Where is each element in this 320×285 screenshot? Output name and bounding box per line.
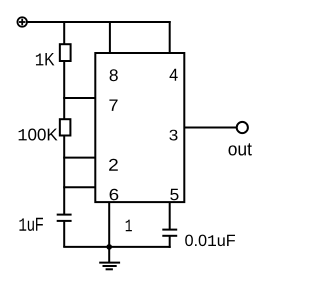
wire pin 2: [63, 157, 96, 159]
value label 100K: [19, 129, 58, 141]
pin 8 label: [110, 69, 118, 81]
pin 1 label: [126, 220, 132, 232]
junction dot: [106, 244, 112, 250]
terminal out: [237, 122, 248, 133]
net label out: [229, 143, 252, 155]
value label 1uF: [19, 218, 43, 231]
pin 3 label: [169, 130, 177, 141]
value label 1K: [36, 53, 55, 65]
wire pin 4 drop: [169, 21, 171, 54]
wire R1 top lead: [63, 21, 65, 45]
wire pin 5 lead: [169, 202, 171, 230]
wire ground rail: [63, 246, 171, 248]
wire V+ rail: [27, 21, 171, 23]
wire pin 6: [63, 186, 96, 188]
pin 2 label: [109, 159, 118, 171]
wire R2 to C1: [63, 136, 65, 215]
wire ground lead: [108, 247, 110, 263]
pin 7 label: [109, 100, 117, 111]
IC U1 555: [95, 53, 184, 202]
pin 5 label: [170, 189, 178, 201]
wire pin 3: [184, 127, 237, 129]
wire R1 to R2: [63, 61, 65, 120]
capacitor C2 0.01uF: [162, 230, 177, 236]
ground GND: [99, 263, 120, 270]
pin 4 label: [170, 69, 178, 81]
terminal V+: [17, 17, 27, 27]
pin 6 label: [110, 189, 119, 201]
wire C1 bottom lead: [63, 221, 65, 247]
value label 0.01uF: [185, 235, 235, 247]
resistor R2 100K: [60, 119, 71, 135]
wire pin 8 drop: [109, 21, 111, 54]
capacitor C1 1uF: [57, 215, 72, 221]
resistor R1 1K: [60, 44, 71, 61]
wire C2 bottom lead: [169, 236, 171, 248]
wire pin 1 drop: [108, 202, 110, 248]
wire pin 7: [63, 97, 96, 99]
